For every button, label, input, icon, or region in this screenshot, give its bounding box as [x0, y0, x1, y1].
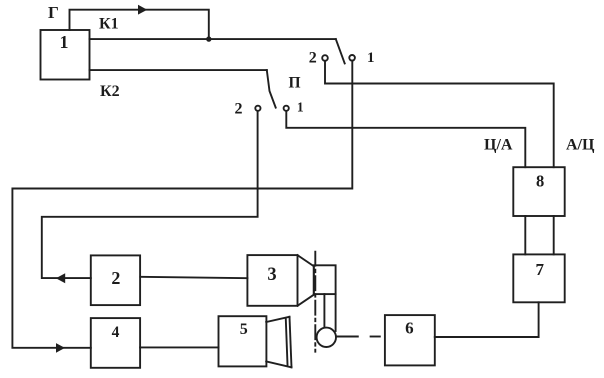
wire 8 to 7 right: [553, 216, 555, 254]
svg-text:А/Ц: А/Ц: [566, 137, 595, 154]
block 3: [247, 255, 297, 306]
block 1: [41, 30, 90, 80]
svg-text:8: 8: [536, 172, 544, 191]
wire K2: [90, 69, 267, 71]
arrowhead toward feedback on block 2 wire: [56, 273, 65, 283]
dashed link rotor to block 6: [336, 336, 380, 338]
switch P1 blade: [336, 39, 345, 63]
coupler box: [314, 265, 336, 294]
svg-text:1: 1: [367, 50, 375, 66]
arrowhead on K1 loop: [138, 5, 147, 15]
svg-text:7: 7: [535, 260, 544, 279]
svg-text:П: П: [289, 75, 301, 92]
svg-text:2: 2: [111, 268, 120, 288]
wire P2 contact 2 to block 2: [42, 111, 258, 278]
svg-text:6: 6: [405, 319, 414, 338]
svg-text:3: 3: [267, 265, 276, 285]
block 4: [91, 318, 140, 368]
svg-text:2: 2: [235, 100, 243, 117]
block 8: [513, 167, 564, 216]
svg-text:К2: К2: [100, 83, 120, 100]
switch P2 blade: [267, 70, 276, 108]
wire P2 contact 1 to block 8 (Ц/А path): [286, 111, 525, 167]
svg-text:Ц/А: Ц/А: [484, 137, 513, 154]
block 2: [91, 255, 140, 305]
svg-text:5: 5: [240, 321, 248, 338]
wire P1 contact 1 to block 4: [12, 61, 352, 348]
switch P1 contact 1: [349, 55, 355, 61]
block 5: [219, 316, 267, 366]
shaft line left: [323, 294, 325, 327]
wire block 7 to block 6: [435, 302, 539, 337]
funnel of block 3: [298, 255, 314, 306]
wire block 2 to block 3: [140, 277, 247, 278]
svg-text:Г: Г: [48, 3, 59, 22]
wire K1 feedback loop: [70, 10, 209, 39]
switch P2 contact 1: [284, 106, 289, 111]
svg-text:1: 1: [60, 32, 69, 52]
rotor circle: [317, 328, 336, 347]
svg-text:1: 1: [297, 99, 304, 114]
horn of block 5: [266, 317, 291, 368]
wire P1 contact 2 to block 8 (А/Ц path): [325, 61, 554, 167]
wire block1 to switch P1: [90, 38, 336, 40]
svg-text:2: 2: [309, 50, 317, 67]
switch P2 contact 2: [255, 106, 260, 111]
svg-text:К1: К1: [99, 16, 119, 33]
block 6: [385, 315, 435, 365]
shaft line right: [335, 294, 337, 331]
block 7: [513, 254, 564, 302]
wire block 4 to block 5: [140, 346, 218, 348]
wire 8 to 7 left: [524, 216, 526, 254]
switch P1 contact 2: [322, 55, 328, 61]
axis dash-dot line: [314, 252, 316, 352]
arrowhead into block 4: [56, 343, 65, 353]
svg-text:4: 4: [112, 324, 120, 341]
junction dot K1: [206, 36, 211, 41]
